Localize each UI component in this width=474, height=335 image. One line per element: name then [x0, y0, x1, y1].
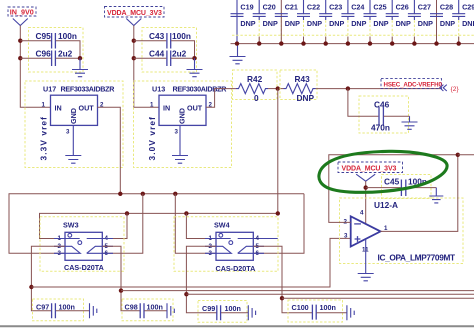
capacitor C19 DNP — [231, 0, 256, 46]
node rail1/U17 — [118, 192, 122, 196]
svg-text:C97: C97 — [36, 302, 49, 311]
svg-text:R42: R42 — [247, 74, 263, 84]
capacitor C27 DNP — [408, 0, 433, 46]
capacitor C95 100n — [20, 28, 83, 73]
node rail1 x142 — [141, 192, 145, 196]
svg-text:C99: C99 — [202, 304, 215, 313]
svg-text:DNP: DNP — [329, 19, 344, 28]
svg-text:IN_9V0: IN_9V0 — [10, 8, 34, 17]
svg-text:DNP: DNP — [307, 19, 322, 28]
wire SW3 pin5 down to railB and C98 — [102, 246, 140, 310]
capacitor C21 DNP — [275, 0, 300, 46]
svg-text:SW3: SW3 — [63, 221, 79, 230]
svg-text:100n: 100n — [172, 31, 191, 41]
node railD start — [280, 296, 284, 300]
capacitor C97 100n — [33, 299, 90, 321]
svg-text:VDDA_MCU_3V3: VDDA_MCU_3V3 — [107, 10, 162, 17]
ground below U13 — [172, 156, 188, 164]
net label HSEC_ADC-VREFH0 — [381, 79, 459, 93]
op-amp U12-A IC_OPA_LMP7709MT — [340, 198, 464, 264]
wire railD — [282, 297, 474, 299]
svg-text:CAS-D20TA: CAS-D20TA — [216, 264, 256, 273]
capacitor C29 DNP — [452, 0, 474, 46]
svg-text:C25: C25 — [373, 3, 386, 12]
svg-text:C46: C46 — [374, 99, 390, 109]
svg-text:2: 2 — [344, 218, 348, 225]
svg-text:C28: C28 — [440, 3, 453, 12]
svg-text:C29: C29 — [462, 3, 474, 12]
svg-text:OUT: OUT — [187, 104, 203, 113]
node railA start — [29, 285, 33, 289]
capacitor C25 DNP — [364, 0, 389, 46]
capacitor C99 100n — [198, 301, 248, 323]
svg-text:IN: IN — [163, 104, 170, 113]
svg-text:C96: C96 — [36, 49, 52, 59]
wire output rail to right edge — [458, 154, 474, 156]
svg-text:C20: C20 — [263, 3, 276, 12]
ground right of C98 — [167, 303, 174, 318]
svg-text:2u2: 2u2 — [58, 49, 73, 59]
capacitor C24 DNP — [341, 0, 366, 46]
svg-text:REF3033AIDBZR: REF3033AIDBZR — [61, 85, 116, 94]
capacitor C23 DNP — [319, 0, 344, 46]
node rail1 x175 — [173, 192, 177, 196]
svg-text:GND: GND — [178, 108, 187, 124]
capacitor C46 470n — [348, 89, 410, 133]
wire SW4 pin5 down to railD and C100 — [253, 246, 312, 312]
node VDDA/C45 junction — [364, 185, 368, 189]
power symbol VDDA_MCU_3V3 (top) — [105, 7, 165, 26]
svg-text:DNP: DNP — [373, 19, 388, 28]
svg-text:3: 3 — [175, 129, 179, 136]
svg-text:OUT: OUT — [79, 104, 95, 113]
ground below C96 — [72, 58, 88, 76]
svg-text:DNP: DNP — [351, 19, 366, 28]
node rail2 x186 — [184, 211, 188, 215]
U13 pin3 wire — [179, 125, 181, 155]
capacitor C45 100n — [366, 175, 437, 199]
svg-text:100n: 100n — [59, 302, 75, 311]
capacitor C26 DNP — [386, 0, 411, 46]
ground on cap bank rail — [230, 44, 246, 64]
voltage reference U17 REF3033AIDBZR — [25, 81, 123, 168]
svg-text:C24: C24 — [351, 3, 364, 12]
svg-text:3: 3 — [344, 232, 348, 239]
svg-text:U13: U13 — [152, 85, 165, 94]
svg-text:C27: C27 — [418, 3, 431, 12]
svg-text:C98: C98 — [125, 302, 138, 311]
ground right of C99 — [248, 305, 255, 320]
capacitor C28 DNP — [430, 0, 455, 46]
wire rail1 drop to SW3 pin6 — [102, 194, 143, 254]
node junction C46 tap — [346, 86, 350, 90]
analog switch SW4 CAS-D20TA — [174, 217, 278, 273]
node railB start — [119, 288, 123, 292]
wire SW4 pin2 down to railC and C99 — [186, 246, 216, 312]
svg-text:C19: C19 — [240, 3, 253, 12]
ground right of C97 — [90, 303, 97, 318]
capacitor C98 100n — [122, 299, 173, 321]
capacitor C44 2u2 — [134, 49, 197, 67]
svg-text:C26: C26 — [396, 3, 409, 12]
top DNP capacitor bank rail — [231, 43, 474, 45]
ground below C44 — [187, 58, 203, 76]
analog switch SW3 CAS-D20TA — [40, 217, 124, 272]
wire op-amp output feedback loop — [329, 155, 458, 232]
svg-text:DNP: DNP — [285, 19, 300, 28]
wire U17 OUT down to rail1 — [98, 107, 121, 194]
svg-text:DNP: DNP — [297, 93, 315, 103]
svg-text:2u2: 2u2 — [172, 49, 187, 59]
annotation green ellipse — [319, 151, 447, 192]
wire R43 to net label — [316, 88, 441, 90]
op-amp pin11 wire — [365, 239, 367, 273]
svg-text:U17: U17 — [43, 85, 56, 94]
svg-text:DNP: DNP — [440, 19, 455, 28]
svg-text:100n: 100n — [147, 302, 163, 311]
power symbol VDDA_MCU_3V3 (op-amp) — [338, 162, 403, 181]
wire SW3 pin2 down to railA and C97 — [31, 246, 65, 310]
wire rail1 drop to SW4 pin3 — [175, 194, 216, 254]
svg-text:DNP: DNP — [418, 19, 433, 28]
node rail2 x127 — [125, 211, 129, 215]
svg-text:0: 0 — [254, 93, 259, 103]
svg-text:R43: R43 — [295, 74, 311, 84]
svg-text:VDDA_MCU_3V3: VDDA_MCU_3V3 — [342, 165, 397, 172]
node rail2 end — [276, 211, 280, 215]
svg-text:C21: C21 — [285, 3, 298, 12]
svg-text:100n: 100n — [320, 303, 336, 312]
power symbol IN_9V0 — [8, 7, 36, 26]
wire R42 to junction — [268, 88, 284, 90]
wire SW4 pin4 stub (unconnected) — [253, 238, 277, 240]
wire rail1 down to SW4 pin6 — [253, 194, 304, 254]
svg-text:C100: C100 — [292, 303, 309, 312]
node junction C44 — [132, 56, 136, 60]
svg-text:1: 1 — [42, 102, 46, 109]
svg-text:100n: 100n — [225, 304, 241, 313]
wire U13 OUT up to R42 — [206, 89, 236, 108]
svg-text:DNP: DNP — [240, 19, 255, 28]
svg-text:3: 3 — [66, 129, 70, 136]
ground right of C100 — [347, 305, 354, 320]
svg-text:SW4: SW4 — [214, 221, 230, 230]
wire rail2 from R42/R43 junction — [40, 89, 278, 239]
svg-text:{2}: {2} — [451, 86, 460, 93]
svg-text:100n: 100n — [58, 31, 77, 41]
svg-text:C95: C95 — [36, 31, 52, 41]
svg-text:3.0V vref: 3.0V vref — [147, 116, 157, 161]
svg-text:C22: C22 — [307, 3, 320, 12]
wire rail1 vref-select net — [9, 194, 304, 254]
wire railC — [186, 293, 474, 295]
svg-text:C43: C43 — [149, 31, 165, 41]
ground below op-amp — [358, 274, 374, 281]
sheet border bottom — [0, 325, 474, 327]
svg-text:470n: 470n — [371, 123, 390, 133]
wire rail2 drop to SW3 pin4 — [102, 213, 127, 238]
wire railA (op-amp +in net) — [31, 238, 350, 287]
wire rail2 drop to SW4 pin1 — [186, 213, 216, 238]
ground right of C45 — [429, 188, 443, 203]
node railC start — [184, 292, 188, 296]
svg-text:4: 4 — [256, 235, 260, 242]
capacitor C43 100n — [134, 28, 197, 73]
wire VDDA down to op-amp pin4 — [365, 181, 367, 224]
node junction C96 — [18, 56, 22, 60]
node output rail — [456, 153, 460, 157]
wire VDDA to U13 pin1 — [134, 26, 159, 108]
yellow selection boxes bottom edge (cap bank) — [232, 34, 474, 36]
capacitor C20 DNP — [253, 0, 278, 46]
node junction C95 — [18, 39, 22, 43]
resistor R43 DNP — [280, 70, 317, 103]
svg-text:DNP: DNP — [396, 19, 411, 28]
svg-text:C44: C44 — [149, 49, 165, 59]
svg-text:DNP: DNP — [263, 19, 278, 28]
capacitor C100 100n — [288, 300, 347, 322]
wire IN_9V0 to U17 pin1 — [20, 26, 50, 108]
svg-text:4: 4 — [360, 210, 364, 217]
svg-text:C45: C45 — [384, 177, 400, 187]
U17 pin3 wire — [72, 125, 74, 155]
capacitor C96 2u2 — [20, 49, 82, 67]
svg-text:IC_OPA_LMP7709MT: IC_OPA_LMP7709MT — [378, 252, 456, 262]
svg-text:C23: C23 — [329, 3, 342, 12]
svg-text:1: 1 — [150, 102, 154, 109]
svg-text:U12-A: U12-A — [374, 200, 398, 210]
svg-text:DNP: DNP — [462, 19, 474, 28]
resistor R42 0 — [233, 70, 278, 103]
svg-text:GND: GND — [69, 108, 78, 124]
voltage reference U13 REF3030AIDBZR — [134, 81, 232, 168]
ground below U17 — [65, 156, 81, 164]
svg-text:3.3V vref: 3.3V vref — [39, 116, 49, 161]
ground right of C46 — [402, 116, 418, 129]
node junction C43 — [132, 39, 136, 43]
svg-text:HSEC_ADC-VREFH0: HSEC_ADC-VREFH0 — [384, 82, 443, 89]
svg-text:CAS-D20TA: CAS-D20TA — [64, 263, 104, 272]
wire railB — [121, 290, 474, 292]
capacitor C22 DNP — [297, 0, 322, 46]
node junction R42/R43 — [276, 86, 280, 90]
svg-text:IN: IN — [55, 104, 62, 113]
